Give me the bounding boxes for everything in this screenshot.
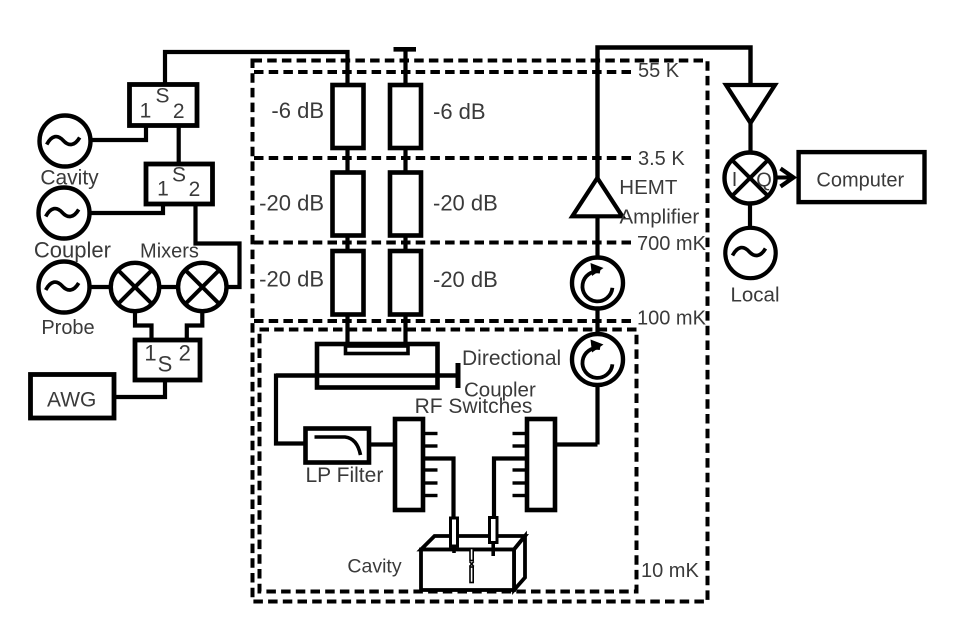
- wire Probe to mixer M1: [89, 285, 111, 289]
- svg-text:RF Switches: RF Switches: [415, 395, 533, 418]
- terminated input T symbol: [394, 49, 417, 88]
- attenuator A4 -20dB right: [390, 173, 421, 236]
- dilution fridge outer dashed box: [253, 61, 708, 602]
- wire M2 to switch S3 port2: [187, 310, 203, 340]
- room temperature amplifier triangle (pointing down): [726, 85, 775, 123]
- RF switch left pin stubs: [423, 434, 438, 496]
- svg-text:700 mK: 700 mK: [637, 233, 707, 255]
- svg-text:Coupler: Coupler: [34, 238, 111, 263]
- wire A6 to coupled section: [403, 315, 407, 349]
- wire M1 to switch S3 port1: [135, 310, 152, 340]
- 3.5 K stage line: [254, 156, 636, 160]
- attenuator A2 -6dB right: [390, 85, 421, 148]
- RF switch left body: [395, 419, 423, 510]
- wire HEMT to circulator C1: [595, 216, 599, 258]
- switch S1: [130, 85, 198, 126]
- svg-text:-20 dB: -20 dB: [433, 267, 498, 292]
- LP filter box: [306, 429, 370, 463]
- cavity 3D box front face: [421, 550, 514, 591]
- svg-text:-20 dB: -20 dB: [433, 191, 498, 216]
- svg-text:Local: Local: [730, 284, 779, 307]
- svg-text:-20 dB: -20 dB: [259, 267, 324, 292]
- directional coupler port terminator bar: [456, 363, 461, 388]
- directional coupler coupled-line box: [346, 346, 409, 354]
- 100 mK stage line: [254, 319, 636, 323]
- wire A4 to A6: [403, 236, 407, 252]
- wire S2 port1 to Coupler source: [89, 204, 163, 213]
- Probe signal generator: [39, 262, 90, 313]
- cavity SMA pin 1: [451, 518, 458, 553]
- mixer M2: [178, 263, 226, 311]
- attenuator A3 -20dB left: [333, 173, 364, 236]
- wire A1 to A3: [345, 147, 349, 173]
- attenuator A6 -20dB right: [390, 251, 421, 315]
- wire LP filter to left RF switch: [370, 442, 396, 446]
- wire S2 port2 to mixer M2: [196, 204, 240, 287]
- wire RF switch left port to cavity pin 1: [423, 459, 454, 520]
- 55 K stage line: [254, 70, 636, 74]
- attenuator A5 -20dB left: [333, 251, 364, 315]
- svg-text:100 mK: 100 mK: [637, 308, 707, 330]
- qubit antenna inside cavity: [470, 549, 474, 583]
- wire amplifier to IQ mixer: [748, 123, 752, 154]
- svg-text:S: S: [172, 164, 186, 187]
- svg-text:2: 2: [173, 100, 185, 123]
- AWG box: [31, 375, 115, 419]
- wire C2 down to RF switch output line: [595, 385, 599, 445]
- cavity SMA pin 2: [490, 518, 498, 557]
- wire IQ mixer to Local oscillator: [748, 203, 752, 229]
- attenuator A1 -6dB left: [333, 85, 364, 148]
- arrow IQ mixer to Computer: [775, 169, 794, 187]
- svg-text:S: S: [158, 352, 173, 377]
- wire A5 to coupled section: [345, 315, 349, 349]
- directional coupler body: [317, 344, 438, 388]
- svg-text:-20 dB: -20 dB: [259, 191, 324, 216]
- wire RF switch right output to circulator C2: [555, 442, 598, 446]
- svg-text:Mixers: Mixers: [140, 241, 199, 263]
- svg-text:1: 1: [157, 178, 169, 201]
- switch S3: [135, 340, 200, 380]
- mixer M1: [111, 263, 159, 311]
- wire A3 to A5: [345, 236, 349, 252]
- switch S2: [146, 164, 213, 205]
- wire S1 port2 to S2: [177, 126, 181, 165]
- svg-text:HEMT: HEMT: [619, 176, 678, 199]
- svg-text:I: I: [732, 169, 738, 191]
- svg-text:3.5 K: 3.5 K: [638, 148, 685, 170]
- IQ mixer: [725, 153, 776, 204]
- cavity 3D box right face: [514, 536, 525, 590]
- circulator C1: [572, 258, 623, 309]
- svg-text:2: 2: [179, 341, 191, 366]
- svg-text:-6 dB: -6 dB: [433, 99, 486, 124]
- wire S1 port1 to Cavity source: [90, 126, 147, 141]
- wire switch S1 top to left attenuator column: [165, 52, 348, 88]
- svg-text:1: 1: [140, 100, 152, 123]
- svg-text:LP Filter: LP Filter: [306, 464, 384, 487]
- Cavity signal generator: [40, 116, 91, 167]
- Computer box: [799, 152, 925, 202]
- svg-text:-6 dB: -6 dB: [271, 98, 324, 123]
- svg-text:Cavity: Cavity: [347, 556, 401, 578]
- wire A2 to A4: [403, 147, 407, 173]
- wire M1 to M2: [159, 285, 179, 289]
- svg-text:1: 1: [144, 341, 156, 366]
- svg-text:55 K: 55 K: [638, 60, 680, 82]
- svg-text:Directional: Directional: [462, 347, 561, 370]
- Local oscillator: [725, 228, 775, 278]
- RF switch right pin stubs: [513, 434, 528, 496]
- HEMT amplifier triangle: [572, 178, 622, 216]
- wire C1 to C2: [595, 309, 599, 336]
- wire coupler tap to LP filter: [276, 374, 305, 444]
- svg-text:Q: Q: [756, 170, 772, 192]
- svg-text:Amplifier: Amplifier: [620, 206, 700, 229]
- Coupler signal generator: [39, 188, 90, 239]
- svg-text:2: 2: [189, 178, 201, 201]
- RF switch right body: [527, 419, 555, 510]
- wire RF switch right port to cavity pin 2: [494, 459, 527, 519]
- svg-text:S: S: [155, 85, 169, 108]
- svg-text:Computer: Computer: [816, 170, 904, 192]
- wire HEMT output up and over to right amplifier: [598, 48, 751, 179]
- svg-text:AWG: AWG: [47, 389, 96, 412]
- circulator C2: [572, 334, 623, 385]
- directional coupler through line: [276, 373, 456, 378]
- svg-text:10 mK: 10 mK: [641, 560, 699, 582]
- wire AWG to S3: [113, 380, 166, 397]
- cavity 3D box top face: [421, 536, 525, 550]
- 700 mK stage line: [254, 241, 636, 245]
- 10 mK inner dashed box: [260, 330, 637, 592]
- svg-text:Probe: Probe: [41, 317, 94, 339]
